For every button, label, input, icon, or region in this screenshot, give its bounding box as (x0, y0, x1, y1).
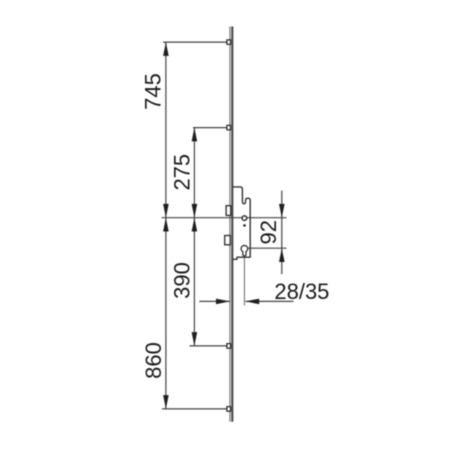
lock case left tab upper (226, 206, 231, 216)
euro cylinder keyhole (241, 245, 248, 255)
arrow 745 bottom down (163, 204, 169, 218)
dimension line 860 (165, 218, 167, 409)
wire faceplate thick rail line (231, 27, 233, 422)
spindle follower hole (242, 216, 247, 221)
dimension line 28/35 right part (245, 300, 293, 302)
wire cylinder centre extension line (248, 247, 287, 249)
arrow 275 bottom down (192, 204, 198, 218)
arrow 860 top up (163, 218, 169, 232)
arrow 92 bottom pointing up (279, 248, 285, 262)
arrow 92 top pointing down (279, 204, 285, 218)
small screw dot (243, 224, 246, 227)
fixing point square (390 datum) (227, 344, 231, 349)
svg-text:28/35: 28/35 (274, 279, 329, 304)
fixing point square bottom (860 datum) (227, 407, 231, 412)
fixing point square (275 datum) (227, 125, 231, 129)
wire extension line fixing 390 (190, 345, 232, 347)
dimension line 745 (165, 42, 167, 218)
fixing point square top (745 datum) (227, 40, 231, 44)
wire extension line fixing 275 (193, 127, 227, 129)
wire extension line top fixing 745 (163, 41, 227, 43)
arrow 28/35 pointing left at cylinder axis (245, 299, 259, 305)
wire spindle centre line (162, 217, 287, 219)
arrow 275 top up (192, 128, 198, 142)
arrow 390 bottom down (192, 332, 198, 346)
dimension line 92 (281, 191, 283, 275)
lock case left tab lower (225, 236, 231, 245)
dimension line 390 (193, 218, 195, 346)
svg-text:92: 92 (256, 220, 281, 244)
svg-text:275: 275 (170, 154, 195, 191)
wire cylinder axis extension down (243, 257, 245, 306)
arrow 745 top up (163, 42, 169, 56)
arrow 390 top up (192, 218, 198, 232)
lock case outline with latch hook (233, 187, 251, 259)
dimension line 275 (193, 128, 195, 218)
svg-text:860: 860 (141, 342, 166, 379)
arrow 28/35 pointing right at faceplate (216, 299, 230, 305)
wire faceplate thin front line (229, 27, 231, 422)
svg-text:745: 745 (140, 73, 165, 110)
svg-text:390: 390 (170, 262, 195, 299)
wire extension line bottom fixing 860 (162, 408, 232, 410)
dimension line 28/35 left part (199, 300, 229, 302)
arrow 860 bottom down (163, 395, 169, 409)
